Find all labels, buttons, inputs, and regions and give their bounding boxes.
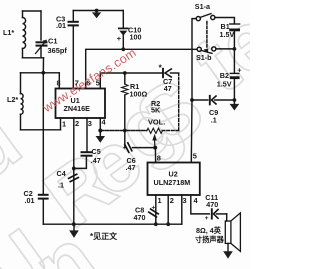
wire S1-a right to battery [215,18,235,24]
svg-text:100Ω: 100Ω [130,90,148,99]
C8 label [134,205,146,222]
svg-text:ULN2718M: ULN2718M [154,178,191,187]
svg-text:.1: .1 [58,181,64,190]
U2 pin numbers bottom [158,196,199,205]
C3 label [56,14,66,30]
ground arrow under pin4 [96,131,105,143]
wire U2 pin5 lead [190,100,193,163]
capacitor C9 [210,96,235,105]
node pin2-line on rail [72,222,76,226]
svg-text:L1*: L1* [3,28,14,37]
svg-text:.01: .01 [25,196,35,205]
wire switched rail to C9/ground [192,99,208,101]
node pin4 junction [98,129,102,133]
svg-text:寸扬声器: 寸扬声器 [195,235,225,244]
svg-text:365pf: 365pf [48,46,68,55]
wire drop through L2 to C2 [42,73,44,194]
R2 labels [148,99,165,127]
C7 label [163,77,172,93]
inductor L1 [23,11,26,58]
capacitor C2 [39,195,48,224]
svg-text:8: 8 [157,154,161,163]
ground arrow on top rail [92,9,101,19]
svg-text:5: 5 [193,152,197,161]
capacitor C1 (variable) [36,40,47,58]
svg-text:.1: .1 [211,116,217,125]
wire U1 pin4 lead [99,118,101,131]
wire pin4 to pot left [100,130,147,132]
wire U2 pin3 lead [181,195,183,224]
capacitor C4 [69,174,79,181]
U1 pin numbers top [57,79,100,88]
svg-text:+: + [205,215,209,222]
C6 label [126,156,136,172]
svg-text:+: + [152,205,156,212]
svg-text:2: 2 [75,119,79,128]
svg-text:C5: C5 [92,147,101,156]
capacitor C7 [163,69,179,77]
wire U2 pin1 lead [155,195,157,224]
B2 label [217,71,232,88]
mechanical link dashes pot to rail [162,130,178,132]
wire R1 bottom to C6 [124,131,126,148]
R1 label [130,82,148,99]
wire pin8 lead U1 [58,73,60,89]
speaker label [195,226,225,244]
ground arrow battery [230,100,240,111]
wire U2 pin2 lead [167,195,169,224]
wire pin1 lead U1 [60,118,62,130]
U1 labels [64,96,91,113]
inductor L2 [21,73,24,130]
speaker [225,213,240,252]
node battery bottom [233,98,237,102]
capacitor C6 [125,143,132,152]
C4 label [57,169,66,190]
capacitor C11 (electrolytic) [212,209,227,218]
amplifier U2 ULN2718M [148,163,200,196]
svg-text:1.5V: 1.5V [217,79,232,88]
wire L1 bottom [23,57,44,59]
wire U1 pin2 line [73,118,75,224]
C10 label [128,26,142,42]
node pin5 corner [190,98,194,102]
C1 value label [48,37,68,56]
wire into speaker [226,214,228,221]
node C8 rail [154,222,158,226]
svg-text:VOL.: VOL. [148,118,165,127]
battery B1 [230,24,240,73]
svg-text:ZN416E: ZN416E [64,104,91,113]
node C5 on pin2 line [72,167,76,171]
wire U2 pin8 lead [154,148,156,163]
svg-text:8: 8 [57,79,61,88]
B1 label [220,22,235,39]
node L2 top junction [41,71,45,75]
ground arrow bottom rail [69,224,79,238]
svg-text:.01: .01 [56,21,66,30]
wire C6 to pin8 junction [133,147,156,149]
wire U1 pin6 supply to S1-b [86,49,197,88]
C9 label [209,108,218,125]
node R1 top [123,71,127,75]
wire U1 pin5 to mid rail [100,73,162,89]
wire L2 bottom [21,129,61,131]
svg-text:5K: 5K [151,106,161,115]
node R1 bottom [123,129,127,133]
svg-text:47: 47 [164,84,172,93]
battery B2 [230,73,238,100]
svg-text:.47: .47 [126,163,136,172]
C2 label [24,189,35,205]
svg-text:1: 1 [62,120,66,129]
capacitor C10 (electrolytic) [119,11,128,50]
svg-text:3: 3 [88,119,92,128]
svg-text:C4: C4 [57,169,66,178]
svg-text:2: 2 [170,196,174,205]
wire tank drop to L2 top [42,58,44,73]
bottom rail wire [43,223,182,225]
potentiometer R2 [147,128,163,147]
svg-text:1: 1 [158,196,162,205]
svg-text:470: 470 [134,213,146,222]
node wiper/C6/pin8 [153,146,157,150]
node battery tap [233,47,237,51]
node C10 bottom [121,47,125,51]
wire S1-b right to battery line [216,48,235,50]
U2 labels [154,170,191,187]
C5 label [91,147,101,165]
svg-text:C1: C1 [48,37,57,46]
svg-text:3: 3 [183,196,187,205]
resistor R1 [122,73,128,131]
svg-text:.47: .47 [91,156,101,165]
svg-text:470: 470 [206,200,218,209]
ground under speaker [223,243,233,258]
mechanical link S1 [206,22,208,48]
wire U2 pin4 to speaker [191,195,210,214]
capacitor C5 [74,118,92,168]
op-amp U1 ZN416E [56,89,106,119]
U1 pin numbers bottom [62,118,107,129]
svg-text:100: 100 [130,32,142,41]
svg-text:*见正文: *见正文 [90,231,118,241]
C11 label [205,193,218,209]
wire L1 top [23,10,42,12]
svg-text:1.5V: 1.5V [220,30,235,39]
capacitor C3 [69,11,78,89]
schematic ink [3,2,242,259]
wire L1 right upper [40,11,42,40]
svg-text:S1-a: S1-a [195,2,211,11]
svg-text:S1-b: S1-b [196,53,212,62]
svg-text:L2*: L2* [7,95,18,104]
wire S1-a left down [192,19,196,100]
switch S1-b [197,47,216,54]
wire L2 top [21,72,60,74]
node pin2 rail [166,222,170,226]
switch S1-a [196,14,215,21]
capacitor C8 (electrolytic) [149,209,159,217]
svg-text:+: + [117,34,122,43]
svg-text:+: + [237,65,241,74]
wire top rail [73,10,123,12]
